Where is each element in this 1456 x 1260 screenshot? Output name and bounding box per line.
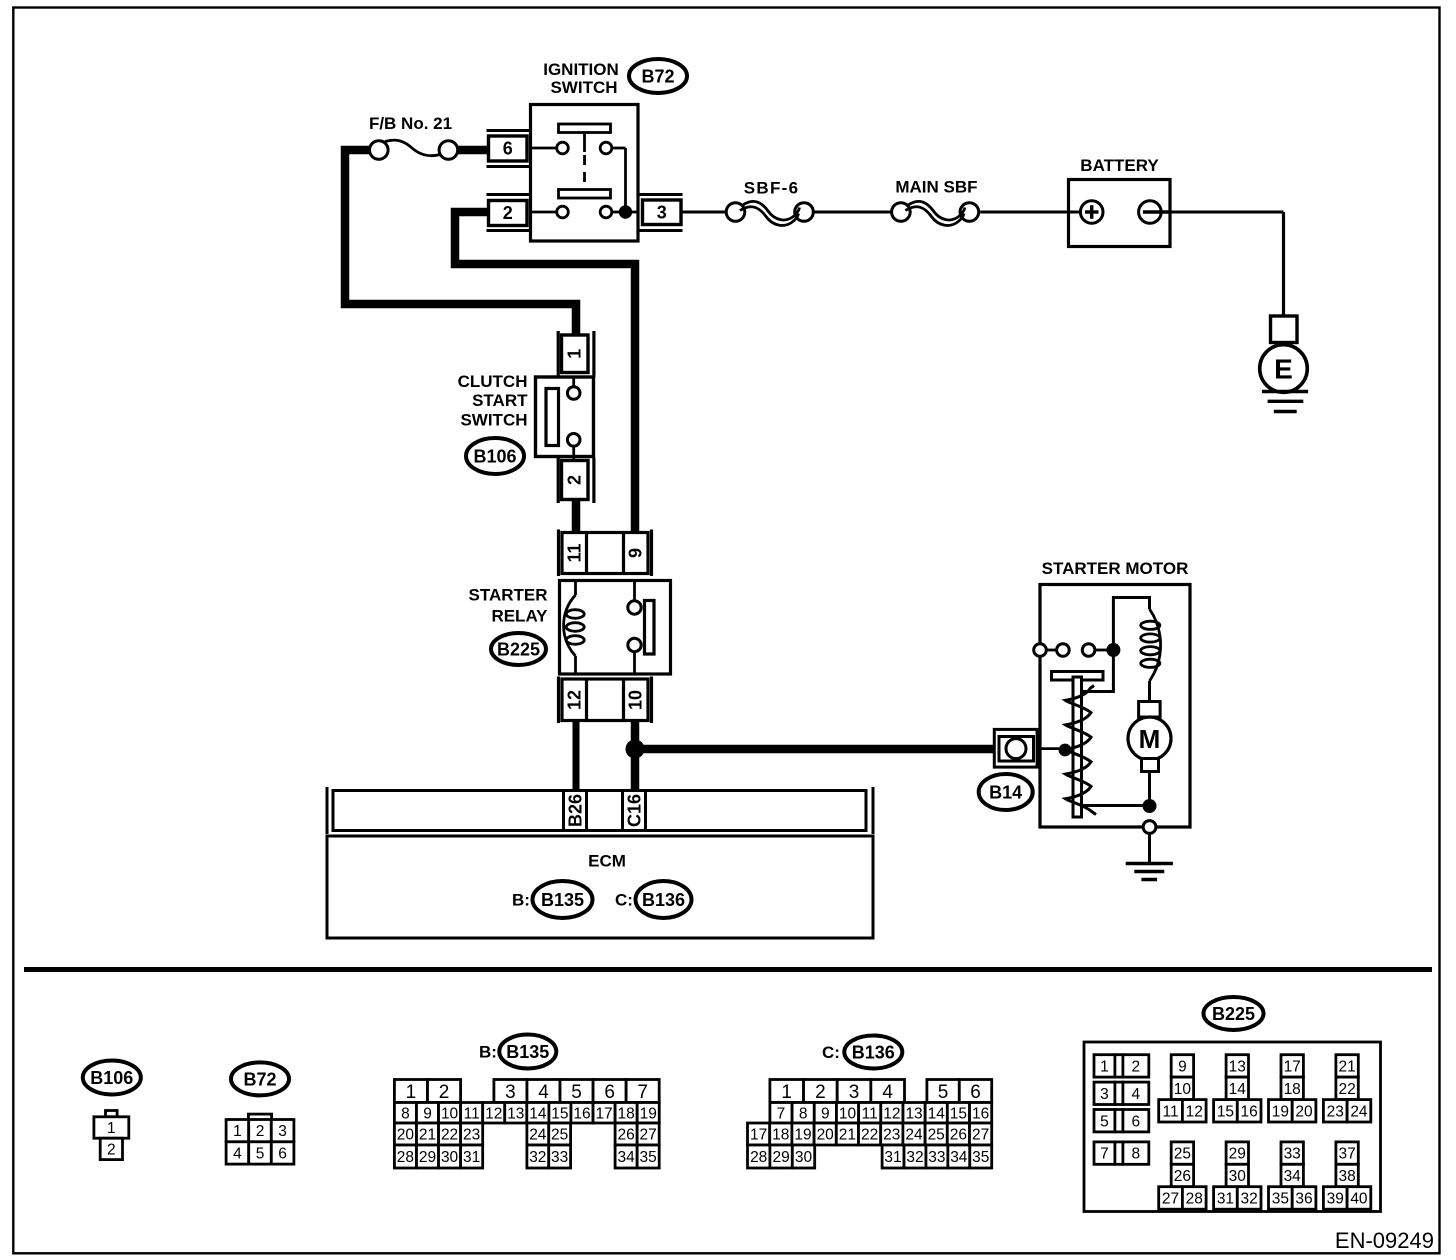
svg-text:4: 4 xyxy=(538,1082,549,1103)
svg-text:B72: B72 xyxy=(641,66,674,86)
svg-text:1: 1 xyxy=(233,1123,242,1140)
svg-text:35: 35 xyxy=(640,1149,657,1166)
svg-text:11: 11 xyxy=(1163,1103,1179,1120)
svg-text:B26: B26 xyxy=(566,794,586,827)
svg-text:33: 33 xyxy=(1284,1146,1301,1163)
svg-text:C:: C: xyxy=(822,1043,840,1062)
svg-text:2: 2 xyxy=(107,1141,116,1158)
svg-text:29: 29 xyxy=(1229,1146,1246,1163)
svg-text:29: 29 xyxy=(772,1149,789,1166)
svg-text:25: 25 xyxy=(551,1127,568,1144)
svg-text:28: 28 xyxy=(397,1149,414,1166)
svg-text:11: 11 xyxy=(464,1105,480,1122)
svg-text:STARTER MOTOR: STARTER MOTOR xyxy=(1042,559,1189,578)
svg-text:12: 12 xyxy=(883,1105,900,1122)
svg-text:2: 2 xyxy=(815,1082,826,1103)
svg-text:4: 4 xyxy=(1132,1086,1141,1103)
svg-text:RELAY: RELAY xyxy=(491,607,548,626)
svg-text:25: 25 xyxy=(928,1127,945,1144)
svg-text:SWITCH: SWITCH xyxy=(460,410,527,429)
svg-text:27: 27 xyxy=(1162,1191,1179,1208)
svg-text:1: 1 xyxy=(1100,1058,1109,1075)
svg-text:30: 30 xyxy=(1229,1168,1247,1185)
svg-text:SBF-6: SBF-6 xyxy=(744,179,800,198)
svg-text:13: 13 xyxy=(507,1105,524,1122)
svg-text:6: 6 xyxy=(970,1082,981,1103)
svg-text:5: 5 xyxy=(1100,1113,1109,1130)
svg-text:E: E xyxy=(1274,354,1293,385)
svg-text:M: M xyxy=(1139,724,1161,754)
svg-text:18: 18 xyxy=(618,1105,635,1122)
svg-text:22: 22 xyxy=(441,1127,458,1144)
svg-text:38: 38 xyxy=(1338,1168,1355,1185)
svg-text:26: 26 xyxy=(950,1127,967,1144)
svg-text:36: 36 xyxy=(1295,1191,1312,1208)
svg-text:32: 32 xyxy=(906,1149,923,1166)
svg-text:6: 6 xyxy=(278,1146,287,1163)
svg-text:22: 22 xyxy=(861,1127,878,1144)
svg-text:7: 7 xyxy=(777,1105,786,1122)
svg-text:10: 10 xyxy=(626,690,646,710)
svg-text:23: 23 xyxy=(883,1127,900,1144)
svg-text:3: 3 xyxy=(505,1082,516,1103)
svg-text:C:: C: xyxy=(615,891,633,910)
svg-text:33: 33 xyxy=(928,1149,945,1166)
svg-text:11: 11 xyxy=(862,1105,878,1122)
svg-text:20: 20 xyxy=(817,1127,835,1144)
svg-text:10: 10 xyxy=(839,1105,857,1122)
svg-text:1: 1 xyxy=(107,1120,116,1137)
svg-text:17: 17 xyxy=(750,1127,767,1144)
svg-text:3: 3 xyxy=(657,203,667,223)
svg-text:12: 12 xyxy=(564,690,584,710)
svg-text:MAIN SBF: MAIN SBF xyxy=(895,178,977,197)
svg-text:37: 37 xyxy=(1338,1146,1355,1163)
svg-text:5: 5 xyxy=(571,1082,582,1103)
svg-text:24: 24 xyxy=(1350,1103,1368,1120)
svg-text:9: 9 xyxy=(821,1105,830,1122)
svg-text:1: 1 xyxy=(565,349,585,359)
svg-text:2: 2 xyxy=(503,203,513,223)
svg-text:8: 8 xyxy=(401,1105,410,1122)
svg-text:1: 1 xyxy=(406,1082,417,1103)
svg-text:STARTER: STARTER xyxy=(468,586,547,605)
svg-text:29: 29 xyxy=(419,1149,436,1166)
svg-text:B106: B106 xyxy=(473,446,516,466)
svg-text:4: 4 xyxy=(882,1082,893,1103)
svg-text:12: 12 xyxy=(485,1105,502,1122)
svg-text:26: 26 xyxy=(1174,1168,1191,1185)
svg-text:15: 15 xyxy=(551,1105,568,1122)
svg-text:C16: C16 xyxy=(625,794,645,827)
svg-text:26: 26 xyxy=(618,1127,635,1144)
svg-text:20: 20 xyxy=(1295,1103,1313,1120)
svg-text:30: 30 xyxy=(795,1149,813,1166)
svg-text:28: 28 xyxy=(750,1149,767,1166)
svg-text:CLUTCH: CLUTCH xyxy=(458,372,528,391)
svg-text:B136: B136 xyxy=(642,890,685,910)
svg-text:11: 11 xyxy=(564,543,584,562)
svg-text:9: 9 xyxy=(1178,1058,1187,1075)
svg-text:31: 31 xyxy=(884,1149,901,1166)
svg-text:23: 23 xyxy=(463,1127,480,1144)
svg-text:40: 40 xyxy=(1350,1191,1368,1208)
svg-text:18: 18 xyxy=(1284,1081,1301,1098)
svg-text:31: 31 xyxy=(1217,1191,1234,1208)
svg-text:22: 22 xyxy=(1338,1081,1355,1098)
svg-text:B225: B225 xyxy=(497,639,540,659)
svg-text:15: 15 xyxy=(950,1105,967,1122)
svg-text:3: 3 xyxy=(1100,1086,1109,1103)
svg-text:2: 2 xyxy=(439,1082,450,1103)
svg-text:21: 21 xyxy=(839,1127,856,1144)
svg-text:33: 33 xyxy=(551,1149,568,1166)
svg-text:B72: B72 xyxy=(243,1069,276,1089)
svg-text:B106: B106 xyxy=(90,1068,133,1088)
svg-text:B136: B136 xyxy=(852,1042,895,1062)
svg-text:B14: B14 xyxy=(989,782,1022,802)
svg-text:8: 8 xyxy=(799,1105,808,1122)
svg-text:19: 19 xyxy=(640,1105,657,1122)
svg-text:B135: B135 xyxy=(506,1042,549,1062)
svg-text:12: 12 xyxy=(1186,1103,1203,1120)
svg-text:ECM: ECM xyxy=(588,852,626,871)
svg-text:6: 6 xyxy=(503,139,513,159)
svg-text:2: 2 xyxy=(256,1123,265,1140)
svg-text:3: 3 xyxy=(849,1082,860,1103)
svg-text:3: 3 xyxy=(278,1123,287,1140)
svg-text:14: 14 xyxy=(529,1105,547,1122)
svg-text:5: 5 xyxy=(256,1146,265,1163)
svg-text:9: 9 xyxy=(626,548,646,558)
svg-text:2: 2 xyxy=(565,475,585,485)
svg-text:B:: B: xyxy=(512,891,530,910)
svg-text:SWITCH: SWITCH xyxy=(550,78,617,97)
svg-text:1: 1 xyxy=(781,1082,792,1103)
svg-text:EN-09249: EN-09249 xyxy=(1335,1228,1434,1253)
svg-text:34: 34 xyxy=(618,1149,636,1166)
svg-text:F/B No. 21: F/B No. 21 xyxy=(369,114,452,133)
svg-text:10: 10 xyxy=(441,1105,459,1122)
svg-text:27: 27 xyxy=(972,1127,989,1144)
svg-text:5: 5 xyxy=(938,1082,949,1103)
svg-text:35: 35 xyxy=(972,1149,989,1166)
svg-text:20: 20 xyxy=(397,1127,415,1144)
svg-text:8: 8 xyxy=(1132,1146,1141,1163)
svg-text:21: 21 xyxy=(419,1127,436,1144)
svg-text:18: 18 xyxy=(772,1127,789,1144)
svg-text:17: 17 xyxy=(1284,1058,1301,1075)
svg-text:4: 4 xyxy=(233,1146,242,1163)
svg-text:B:: B: xyxy=(479,1043,497,1062)
svg-text:BATTERY: BATTERY xyxy=(1080,156,1159,175)
svg-text:16: 16 xyxy=(573,1105,590,1122)
svg-text:13: 13 xyxy=(1229,1058,1246,1075)
svg-text:IGNITION: IGNITION xyxy=(543,60,619,79)
svg-text:16: 16 xyxy=(972,1105,989,1122)
svg-text:7: 7 xyxy=(1100,1146,1109,1163)
svg-text:9: 9 xyxy=(423,1105,432,1122)
svg-text:19: 19 xyxy=(794,1127,811,1144)
svg-text:32: 32 xyxy=(1241,1191,1258,1208)
svg-text:27: 27 xyxy=(640,1127,657,1144)
svg-text:34: 34 xyxy=(1284,1168,1302,1185)
svg-text:34: 34 xyxy=(950,1149,968,1166)
svg-text:2: 2 xyxy=(1132,1058,1141,1075)
svg-text:32: 32 xyxy=(529,1149,546,1166)
svg-text:24: 24 xyxy=(905,1127,923,1144)
svg-text:23: 23 xyxy=(1327,1103,1344,1120)
svg-text:B135: B135 xyxy=(541,890,584,910)
svg-text:14: 14 xyxy=(928,1105,946,1122)
svg-text:25: 25 xyxy=(1174,1146,1191,1163)
svg-text:17: 17 xyxy=(595,1105,612,1122)
svg-text:31: 31 xyxy=(463,1149,480,1166)
svg-text:START: START xyxy=(472,391,528,410)
svg-text:14: 14 xyxy=(1229,1081,1247,1098)
svg-text:24: 24 xyxy=(529,1127,547,1144)
svg-text:21: 21 xyxy=(1338,1058,1355,1075)
svg-text:6: 6 xyxy=(1132,1113,1141,1130)
svg-text:35: 35 xyxy=(1272,1191,1289,1208)
svg-text:6: 6 xyxy=(604,1082,615,1103)
svg-text:7: 7 xyxy=(637,1082,648,1103)
svg-text:B225: B225 xyxy=(1212,1004,1255,1024)
svg-text:13: 13 xyxy=(905,1105,922,1122)
svg-text:28: 28 xyxy=(1186,1191,1203,1208)
svg-text:10: 10 xyxy=(1174,1081,1192,1098)
svg-text:39: 39 xyxy=(1327,1191,1344,1208)
svg-text:15: 15 xyxy=(1217,1103,1234,1120)
svg-text:19: 19 xyxy=(1272,1103,1289,1120)
svg-text:16: 16 xyxy=(1241,1103,1258,1120)
svg-text:30: 30 xyxy=(441,1149,459,1166)
